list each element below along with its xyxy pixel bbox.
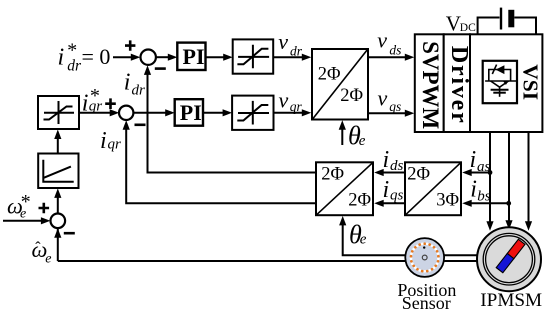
svg-text:2Φ: 2Φ [318, 65, 341, 85]
svg-text:= 0: = 0 [82, 44, 111, 69]
svg-text:VSI: VSI [519, 64, 543, 100]
svg-text:3Φ: 3Φ [436, 190, 459, 210]
svg-text:as: as [477, 159, 491, 175]
svg-text:dr: dr [67, 58, 82, 75]
svg-text:qs: qs [389, 99, 401, 114]
svg-text:v: v [278, 29, 288, 54]
svg-text:e: e [45, 251, 51, 266]
svg-text:Driver: Driver [446, 46, 472, 125]
svg-text:PI: PI [183, 44, 205, 69]
svg-text:bs: bs [477, 189, 491, 205]
svg-text:i: i [100, 128, 107, 154]
svg-text:i: i [124, 70, 131, 96]
svg-text:v: v [279, 88, 289, 113]
svg-text:i: i [58, 45, 65, 71]
svg-text:SVPWM: SVPWM [418, 41, 443, 129]
svg-text:ds: ds [389, 43, 401, 58]
svg-text:i: i [383, 147, 390, 173]
svg-text:v: v [377, 28, 387, 53]
svg-text:V: V [446, 12, 461, 36]
svg-text:PI: PI [180, 100, 202, 125]
svg-text:i: i [383, 177, 390, 203]
svg-text:DC: DC [460, 22, 476, 34]
svg-text:qs: qs [390, 188, 404, 204]
svg-text:v: v [378, 85, 388, 110]
svg-text:Sensor: Sensor [402, 293, 451, 313]
svg-text:qr: qr [89, 98, 103, 114]
svg-text:dr: dr [132, 82, 146, 98]
svg-text:e: e [360, 232, 367, 248]
svg-text:ˆ: ˆ [35, 239, 41, 256]
svg-text:IPMSM: IPMSM [480, 290, 542, 311]
svg-text:2Φ: 2Φ [348, 190, 371, 210]
svg-text:qr: qr [290, 99, 303, 114]
svg-text:dr: dr [290, 44, 303, 59]
svg-text:i: i [470, 147, 477, 173]
svg-text:ds: ds [390, 158, 404, 174]
svg-text:e: e [20, 206, 26, 221]
svg-text:i: i [470, 176, 477, 202]
svg-text:2Φ: 2Φ [407, 164, 430, 184]
svg-text:i: i [82, 90, 89, 116]
svg-text:e: e [359, 133, 366, 149]
svg-text:2Φ: 2Φ [321, 164, 344, 184]
svg-text:qr: qr [108, 137, 122, 153]
svg-text:2Φ: 2Φ [340, 86, 363, 106]
